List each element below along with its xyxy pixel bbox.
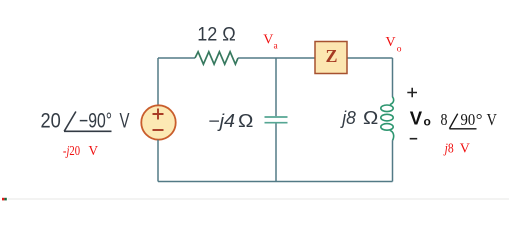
svg-text:Ω: Ω [363, 108, 378, 128]
svg-text:V: V [89, 143, 99, 158]
svg-text:12 Ω: 12 Ω [197, 24, 236, 46]
svg-text:°: ° [476, 110, 483, 129]
wire left vertical lower [157, 140, 159, 182]
wire middle vertical lower [275, 124, 277, 182]
angle slash right [449, 114, 457, 129]
wire right vertical lower [392, 140, 394, 181]
bottom edge artifact green dot [4, 198, 6, 201]
inductor L loop 1 [381, 105, 393, 112]
svg-text:a: a [274, 42, 279, 52]
svg-text:V: V [487, 110, 498, 129]
svg-text:j8: j8 [339, 108, 356, 128]
svg-text:Z: Z [325, 46, 337, 66]
label angle underline [64, 130, 112, 132]
bottom edge artifact red dot [2, 198, 4, 201]
voltage source minus sign [153, 129, 164, 131]
svg-text:V: V [460, 142, 470, 157]
minus sign output [410, 138, 418, 140]
svg-text:o: o [397, 45, 402, 55]
capacitor C top plate [265, 116, 288, 118]
wire left vertical upper [157, 58, 159, 106]
voltage source plus sign [153, 109, 164, 120]
svg-text:−j4: −j4 [208, 111, 235, 131]
svg-text:90: 90 [461, 110, 476, 129]
svg-text:V: V [386, 35, 396, 50]
wire resistor to Z box (through node Va) [238, 57, 315, 59]
svg-text:V: V [120, 110, 130, 133]
wire middle vertical upper (node Va down to capacitor) [275, 58, 277, 116]
plus sign output [407, 88, 417, 98]
wire right vertical upper [392, 58, 394, 97]
svg-text:8: 8 [441, 110, 448, 129]
svg-text:j8: j8 [443, 142, 454, 157]
svg-text:o: o [424, 114, 431, 128]
svg-text:V: V [410, 108, 423, 129]
svg-text:-j20: -j20 [63, 143, 81, 158]
voltage source Vs circle [141, 105, 175, 139]
impedance box Z [315, 42, 347, 74]
inductor L loop 3 [381, 124, 393, 131]
angle underline right [449, 128, 476, 130]
wire Z box to top-right corner [347, 57, 393, 59]
inductor L coil spine [390, 97, 394, 105]
resistor R 12ohm [195, 52, 238, 64]
inductor L loop 2 [381, 114, 393, 121]
svg-text:20: 20 [41, 110, 61, 133]
svg-text:V: V [263, 32, 273, 47]
wire top-left horizontal [158, 57, 195, 59]
capacitor C bottom plate [265, 122, 288, 124]
svg-text:Ω: Ω [238, 111, 253, 131]
wire bottom horizontal [158, 181, 393, 183]
bottom faint separator line [8, 198, 509, 200]
inductor L bottom hook [390, 130, 394, 140]
svg-text:−90°: −90° [79, 110, 112, 133]
label angle slash [64, 112, 76, 132]
